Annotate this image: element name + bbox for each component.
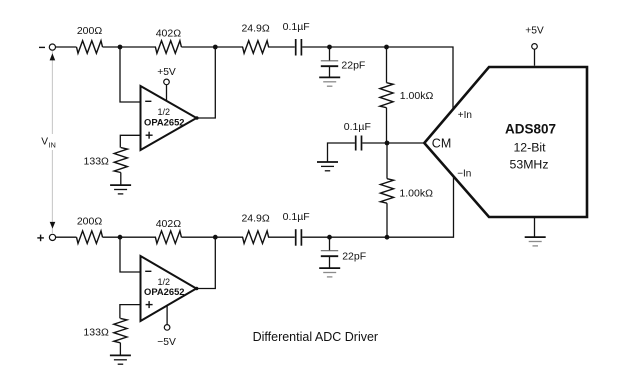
ground below R133 (bottom) xyxy=(110,355,131,364)
wire top-in to R 200 xyxy=(55,46,76,48)
label ADS807 xyxy=(505,122,556,137)
terminal +5V supply ADC xyxy=(532,44,538,50)
ground below R133 (top) xyxy=(110,185,131,194)
svg-text:−In: −In xyxy=(457,168,471,179)
svg-text:133Ω: 133Ω xyxy=(84,155,110,167)
arrow down VIN xyxy=(50,222,56,229)
wire R200 to node E xyxy=(103,236,121,238)
wire node CM to R 1.00k lower xyxy=(386,143,388,179)
wire node C to node D xyxy=(330,46,387,48)
plus sign U1a non-inverting input xyxy=(146,132,153,139)
capacitor 22pF shunt (bottom) xyxy=(321,237,338,268)
label CM node xyxy=(432,137,451,151)
wire ADC ground pin xyxy=(534,217,536,237)
wire R24.9 to C 0.1µF xyxy=(268,46,295,48)
resistor 24.9Ω (top) xyxy=(243,41,269,54)
wire node E to R 402 xyxy=(120,236,156,238)
label 22pF (bottom) xyxy=(342,251,366,263)
wire R24.9 to C 0.1µF xyxy=(268,236,295,238)
wire bot-in to R 200 xyxy=(55,236,76,238)
wire C to node G xyxy=(302,236,329,238)
svg-text:V: V xyxy=(41,136,48,147)
svg-text:22pF: 22pF xyxy=(341,60,365,72)
resistor 402Ω (top) xyxy=(155,41,181,54)
minus sign U1a inverting input xyxy=(145,100,151,102)
capacitor 0.1µF CM xyxy=(356,136,362,151)
resistor 133Ω (bottom) xyxy=(114,318,127,342)
label +5V ADC xyxy=(525,26,544,37)
svg-text:24.9Ω: 24.9Ω xyxy=(241,23,269,35)
label 0.1µF (top) xyxy=(283,21,310,33)
wire node CM to ADC wedge xyxy=(387,142,424,144)
ground below 22pF (bottom) xyxy=(319,268,340,277)
label 12-Bit xyxy=(513,141,546,155)
label 1.00kΩ (lower) xyxy=(399,188,433,200)
wire U1b output feedback xyxy=(196,237,215,288)
label 200Ω (bottom) xyxy=(77,216,103,228)
label OPA2652 U1a xyxy=(144,116,184,127)
op-amp U1b 1/2 OPA2652 triangle xyxy=(141,256,197,321)
svg-text:Differential ADC Driver: Differential ADC Driver xyxy=(253,330,379,344)
svg-text:200Ω: 200Ω xyxy=(77,25,103,37)
svg-text:1.00kΩ: 1.00kΩ xyxy=(400,90,434,102)
capacitor 22pF shunt (top) xyxy=(321,47,338,77)
wire R1k upper to node CM xyxy=(386,108,388,143)
node CM junction xyxy=(385,141,390,146)
label 0.1µF CM xyxy=(344,121,371,133)
node C junction (top) xyxy=(327,45,332,50)
svg-text:−5V: −5V xyxy=(157,337,176,348)
wire R402 to node B xyxy=(181,46,215,48)
wire C CM to ground xyxy=(328,143,355,162)
wire R133 to ground (bottom) xyxy=(119,343,121,356)
node D junction (top) xyxy=(384,45,389,50)
node E junction (bottom) xyxy=(118,235,123,240)
label 1/2 U1b xyxy=(157,277,170,287)
resistor 200Ω (bottom) xyxy=(77,231,103,244)
wire +5V supply pin U1a xyxy=(166,85,168,102)
svg-text:1.00kΩ: 1.00kΩ xyxy=(399,188,433,200)
label 24.9Ω (top) xyxy=(241,23,269,35)
label -5V U1b xyxy=(157,337,176,348)
plus sign U1b non-inverting input xyxy=(146,301,153,308)
wire +5V supply ADC xyxy=(534,49,536,65)
terminal - input (top) xyxy=(39,44,56,50)
node G junction (bottom) xyxy=(327,235,332,240)
svg-text:OPA2652: OPA2652 xyxy=(144,286,184,297)
resistor 200Ω (top) xyxy=(77,41,103,54)
wire R402 to node F xyxy=(181,236,215,238)
svg-text:53MHz: 53MHz xyxy=(510,158,549,172)
ADC U2 ADS807 body xyxy=(424,67,587,217)
resistor 402Ω (bottom) xyxy=(155,231,181,244)
wire node D to +In corner xyxy=(387,47,454,109)
label 402Ω (top) xyxy=(156,28,182,40)
label 0.1µF (bottom) xyxy=(283,211,310,223)
ground below 22pF (top) xyxy=(319,77,340,86)
svg-text:402Ω: 402Ω xyxy=(156,218,182,230)
svg-text:22pF: 22pF xyxy=(342,251,366,263)
arrow up VIN xyxy=(50,53,56,60)
label +In pin xyxy=(458,110,472,121)
wire node CM to C 0.1µF xyxy=(362,142,387,144)
node H junction (bottom) xyxy=(385,235,390,240)
wire node F to R 24.9 xyxy=(215,236,243,238)
wire node G to node H xyxy=(330,236,388,238)
svg-text:133Ω: 133Ω xyxy=(83,327,109,339)
terminal +5V supply U1a xyxy=(164,79,170,85)
wire node E down to inverting input U1b xyxy=(120,237,141,272)
wire non-inverting input U1a to R133 xyxy=(120,135,140,147)
label 1.00kΩ (upper) xyxy=(400,90,434,102)
label 22pF (top) xyxy=(341,60,365,72)
label 53MHz xyxy=(510,158,549,172)
wire R133 to ground (top) xyxy=(120,173,122,186)
wire node A to R 402 xyxy=(120,46,156,48)
op-amp U1a 1/2 OPA2652 triangle xyxy=(141,86,197,150)
resistor 24.9Ω (bottom) xyxy=(243,231,269,244)
minus sign U1b inverting input xyxy=(145,270,151,272)
wire node B to R 24.9 xyxy=(215,46,243,48)
capacitor 0.1µF series (bottom) xyxy=(296,229,302,246)
wire node A down to inverting input U1a xyxy=(120,47,141,102)
label 402Ω (bottom) xyxy=(156,218,182,230)
svg-text:0.1µF: 0.1µF xyxy=(283,21,310,33)
label VIN xyxy=(39,134,59,150)
caption Differential ADC Driver xyxy=(253,330,379,344)
resistor 1.00kΩ (upper) xyxy=(380,83,393,108)
wire R1k lower to node H xyxy=(386,203,388,237)
label -In pin xyxy=(457,168,471,179)
svg-text:IN: IN xyxy=(49,141,56,150)
net VIN measure line xyxy=(51,51,53,233)
svg-text:12-Bit: 12-Bit xyxy=(513,141,546,155)
svg-text:200Ω: 200Ω xyxy=(77,216,103,228)
svg-text:0.1µF: 0.1µF xyxy=(344,121,371,133)
ground at CM cap xyxy=(317,162,338,171)
node U1a output tip xyxy=(195,116,199,120)
label 24.9Ω (bottom) xyxy=(241,213,269,225)
terminal + input (bottom) xyxy=(37,234,55,241)
svg-text:ADS807: ADS807 xyxy=(505,122,556,137)
wire non-inverting input U1b to R133 xyxy=(120,305,141,319)
label 133Ω (bottom) xyxy=(83,327,109,339)
wire node H to -In corner xyxy=(387,177,454,237)
svg-text:+5V: +5V xyxy=(157,67,176,78)
wire -5V supply pin U1b xyxy=(166,306,168,325)
svg-text:+In: +In xyxy=(458,110,472,121)
svg-text:24.9Ω: 24.9Ω xyxy=(241,213,269,225)
wire node D to R 1.00k top xyxy=(386,47,388,83)
wire U1a output feedback xyxy=(197,47,216,118)
node B junction (top out) xyxy=(213,45,218,50)
capacitor 0.1µF series (top) xyxy=(296,39,302,56)
label OPA2652 U1b xyxy=(144,286,184,297)
node F junction (bottom out) xyxy=(213,235,218,240)
svg-text:402Ω: 402Ω xyxy=(156,28,182,40)
svg-text:CM: CM xyxy=(432,137,451,151)
label 200Ω (top) xyxy=(77,25,103,37)
svg-text:+5V: +5V xyxy=(525,26,544,37)
terminal -5V supply U1b xyxy=(164,325,170,331)
resistor 133Ω (top) xyxy=(114,148,127,173)
node U1b output tip xyxy=(195,287,199,291)
node A junction (top) xyxy=(118,45,123,50)
label 1/2 U1a xyxy=(157,107,170,117)
wire R200 to node A xyxy=(103,46,121,48)
svg-text:0.1µF: 0.1µF xyxy=(283,211,310,223)
label 133Ω (top) xyxy=(84,155,110,167)
label +5V U1a xyxy=(157,67,176,78)
resistor 1.00kΩ (lower) xyxy=(380,179,393,204)
wire C to node C xyxy=(302,46,329,48)
svg-text:OPA2652: OPA2652 xyxy=(144,116,184,127)
ground below ADC xyxy=(525,237,546,246)
